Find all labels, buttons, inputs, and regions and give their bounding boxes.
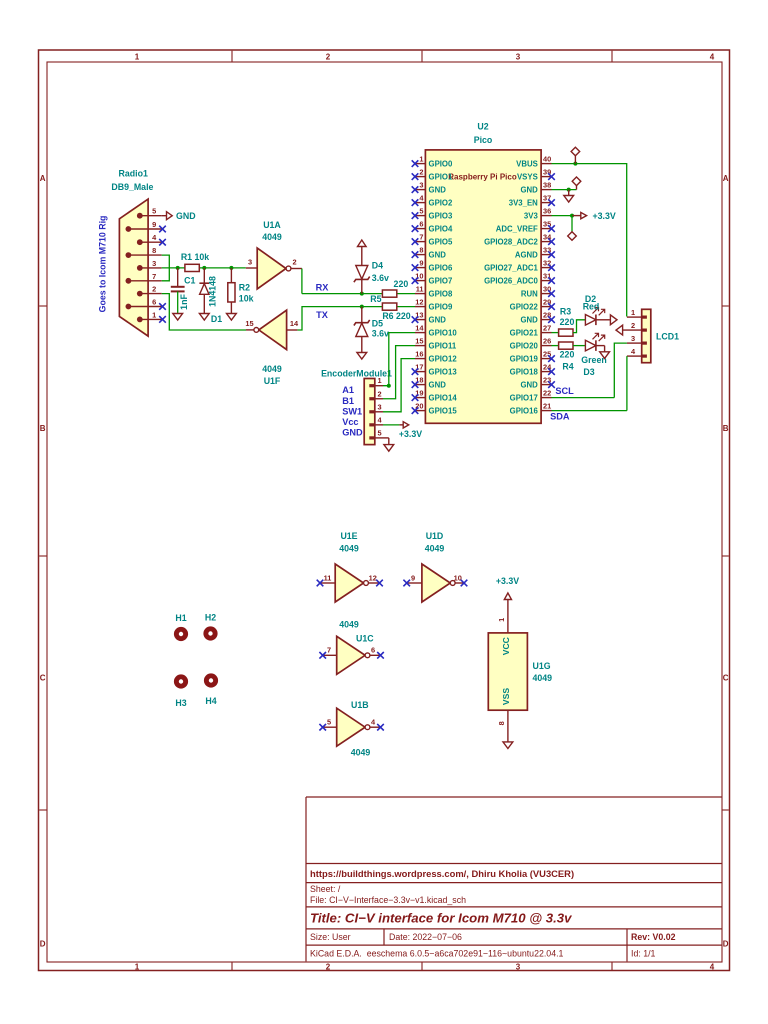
ground U2.38: [564, 190, 574, 203]
ground D2 (rotated right): [610, 315, 617, 325]
svg-text:AGND: AGND: [515, 250, 538, 259]
svg-text:GND: GND: [520, 380, 538, 389]
svg-text:GPIO12: GPIO12: [429, 354, 458, 363]
svg-text:3: 3: [419, 181, 423, 190]
svg-text:5: 5: [152, 207, 156, 216]
svg-text:Sheet: /: Sheet: /: [310, 884, 341, 894]
svg-text:TX: TX: [316, 310, 329, 320]
svg-text:A: A: [40, 174, 46, 183]
svg-text:4049: 4049: [339, 619, 359, 629]
svg-text:16: 16: [415, 350, 423, 359]
svg-text:U1A: U1A: [263, 220, 281, 230]
no-connect U1C.6: [377, 652, 384, 659]
svg-text:D4: D4: [372, 261, 383, 271]
svg-text:VSS: VSS: [501, 688, 511, 705]
svg-text:1: 1: [152, 310, 156, 319]
wire net DB9.3 to U1A.3 (CI-V line): [162, 267, 246, 269]
junction C1 top: [176, 266, 180, 270]
svg-text:GPIO10: GPIO10: [429, 328, 458, 337]
resistor R3 220: [552, 307, 575, 337]
mounting hole H2: [203, 612, 217, 640]
svg-text:SCL: SCL: [555, 386, 574, 396]
svg-text:GND: GND: [342, 428, 363, 438]
svg-text:12: 12: [369, 573, 377, 582]
ground R2: [227, 314, 237, 321]
svg-text:B: B: [723, 424, 729, 433]
svg-text:3: 3: [152, 259, 156, 268]
no-connect U2 pin 10: [412, 277, 419, 284]
svg-text:H1: H1: [175, 613, 186, 623]
inverter U1A 4049: [246, 220, 302, 289]
svg-text:+3.3V: +3.3V: [496, 576, 519, 586]
inverter U1D 4049: [407, 531, 464, 602]
wire Encoder.1 to U2.14: [383, 333, 415, 386]
svg-text:GPIO6: GPIO6: [429, 263, 453, 272]
svg-text:https://buildthings.wordpress.: https://buildthings.wordpress.com/, Dhir…: [310, 868, 574, 879]
wire LCD1.3 to SCL (U2.22): [552, 343, 627, 398]
svg-text:+3.3V: +3.3V: [399, 429, 422, 439]
svg-text:GPIO3: GPIO3: [429, 211, 453, 220]
no-connect U1D.9: [403, 580, 410, 587]
svg-text:GPIO0: GPIO0: [429, 159, 453, 168]
junction R2 top: [229, 266, 233, 270]
ic U2 Raspberry Pi Pico: [415, 122, 552, 424]
wire Encoder.3 to U2.16: [383, 359, 415, 412]
svg-text:EncoderModule1: EncoderModule1: [321, 368, 392, 378]
resistor R4 220: [552, 342, 575, 372]
connector EncoderModule1: [321, 368, 392, 444]
svg-text:SW1: SW1: [342, 406, 362, 416]
svg-text:5: 5: [419, 207, 423, 216]
svg-text:1: 1: [419, 155, 423, 164]
svg-text:R3: R3: [560, 307, 571, 317]
svg-text:Raspberry Pi Pico: Raspberry Pi Pico: [448, 172, 517, 181]
svg-text:C: C: [40, 673, 46, 682]
ground C1: [173, 314, 183, 321]
svg-text:VBUS: VBUS: [516, 159, 538, 168]
svg-text:11: 11: [416, 285, 424, 294]
svg-text:U1E: U1E: [340, 531, 357, 541]
svg-text:1nF: 1nF: [179, 294, 189, 310]
no-connect U2 pin 6: [412, 225, 419, 232]
svg-text:U1F: U1F: [264, 376, 281, 386]
svg-text:1: 1: [497, 618, 506, 622]
svg-text:R5: R5: [370, 294, 381, 304]
no-connect U2 pin 4: [412, 199, 419, 206]
svg-text:D: D: [723, 939, 729, 948]
svg-text:H2: H2: [205, 612, 216, 622]
svg-text:D1: D1: [211, 314, 222, 324]
no-connect U2 pin 37: [548, 199, 555, 206]
no-connect U1C.7: [319, 652, 326, 659]
svg-text:5: 5: [327, 718, 331, 727]
svg-text:GND: GND: [429, 315, 447, 324]
no-connect U2 pin 13: [412, 316, 419, 323]
svg-text:Rev: V0.02: Rev: V0.02: [631, 932, 676, 942]
svg-text:5: 5: [377, 428, 381, 437]
no-connect U2 pin 20: [412, 407, 419, 414]
svg-text:3: 3: [516, 962, 521, 971]
inverter U1E 4049: [320, 531, 379, 602]
svg-text:GND: GND: [520, 315, 538, 324]
svg-text:GND: GND: [429, 250, 447, 259]
svg-text:4049: 4049: [533, 673, 553, 683]
power flag GND (diamond): [572, 177, 581, 190]
svg-text:B: B: [40, 424, 46, 433]
resistor R6 220: [382, 303, 410, 321]
svg-text:GPIO4: GPIO4: [429, 224, 453, 233]
svg-text:GPIO17: GPIO17: [510, 393, 538, 402]
no-connect U2 pin 2: [412, 173, 419, 180]
svg-text:GPIO2: GPIO2: [429, 198, 453, 207]
svg-text:Goes to Icom M710 Rig: Goes to Icom M710 Rig: [98, 216, 108, 313]
svg-text:RUN: RUN: [521, 289, 538, 298]
svg-text:GPIO1: GPIO1: [429, 172, 453, 181]
svg-text:File: CI−V−Interface−3.3v−v1.k: File: CI−V−Interface−3.3v−v1.kicad_sch: [310, 895, 466, 905]
power unit U1G 4049 (VCC/VSS): [488, 600, 552, 742]
svg-text:1: 1: [135, 962, 140, 971]
svg-text:1: 1: [135, 52, 140, 61]
svg-text:2: 2: [292, 257, 296, 266]
power flag below 3V3 (diamond): [568, 216, 577, 241]
svg-text:SDA: SDA: [550, 411, 570, 421]
svg-text:GND: GND: [429, 185, 447, 194]
svg-text:+3.3V: +3.3V: [593, 211, 616, 221]
no-connect DB9 pin 4: [159, 239, 166, 246]
wire DB9.2 to U1F.15: [162, 294, 246, 330]
svg-text:220: 220: [560, 350, 575, 360]
svg-text:GPIO22: GPIO22: [510, 302, 539, 311]
svg-text:3: 3: [248, 257, 252, 266]
ground U1G.8: [503, 742, 513, 749]
wire LCD1.4 to SDA (U2.21): [552, 356, 627, 411]
no-connect U2 pin 1: [412, 160, 419, 167]
svg-text:D5: D5: [372, 318, 383, 328]
mounting hole H4: [204, 673, 218, 706]
svg-text:6: 6: [419, 220, 423, 229]
svg-text:RX: RX: [316, 282, 330, 292]
wire 3V3 net (U2.36): [552, 215, 573, 217]
svg-text:DB9_Male: DB9_Male: [111, 182, 153, 192]
svg-text:4049: 4049: [425, 544, 445, 554]
wire R4 to D3: [573, 345, 585, 347]
diode D1 1N4148: [199, 268, 222, 324]
svg-text:6: 6: [152, 298, 156, 307]
svg-text:220: 220: [394, 279, 409, 289]
svg-text:7: 7: [327, 646, 331, 655]
no-connect U2 pin 25: [548, 355, 555, 362]
wire GND net (U2.38): [552, 189, 577, 191]
svg-text:12: 12: [415, 298, 423, 307]
svg-text:H4: H4: [205, 696, 216, 706]
svg-text:10k: 10k: [239, 294, 254, 304]
connector LCD1: [623, 308, 679, 363]
svg-text:8: 8: [152, 246, 156, 255]
power flag above D4 (arrow up): [358, 240, 367, 247]
zener diode D4 3.6v: [354, 247, 389, 294]
svg-text:GPIO16: GPIO16: [510, 406, 539, 415]
svg-text:VCC: VCC: [501, 637, 511, 655]
svg-text:14: 14: [290, 319, 299, 328]
junction Encoder.1: [387, 384, 391, 388]
svg-text:36: 36: [543, 207, 551, 216]
svg-text:GPIO15: GPIO15: [429, 406, 458, 415]
svg-text:Red: Red: [583, 301, 600, 311]
wire DB9 pin8 to pin7 tie: [162, 255, 170, 281]
resistor R2 10k: [228, 268, 254, 314]
no-connect U1E.12: [376, 580, 383, 587]
wire R6 to U1F.14: [297, 307, 382, 330]
svg-text:GPIO26_ADC0: GPIO26_ADC0: [484, 276, 538, 285]
capacitor C1 1nF: [171, 268, 196, 314]
svg-text:4049: 4049: [262, 232, 282, 242]
no-connect U2 pin 32: [548, 264, 555, 271]
svg-text:4049: 4049: [351, 748, 371, 758]
wire R3 to D2: [573, 320, 585, 333]
connector Radio1 DB9_Male: [111, 169, 161, 337]
svg-text:3: 3: [377, 402, 381, 411]
svg-text:GPIO27_ADC1: GPIO27_ADC1: [484, 263, 538, 272]
led D3 Green: [581, 333, 606, 377]
power flag VBUS (diamond): [571, 147, 580, 163]
svg-text:Vcc: Vcc: [342, 417, 358, 427]
svg-text:U1G: U1G: [533, 661, 551, 671]
no-connect U2 pin 24: [548, 368, 555, 375]
svg-text:Radio1: Radio1: [119, 169, 148, 179]
no-connect U2 pin 31: [548, 277, 555, 284]
svg-text:11: 11: [324, 573, 332, 582]
svg-text:3.6v: 3.6v: [372, 329, 389, 339]
svg-text:38: 38: [543, 181, 551, 190]
no-connect U2 pin 3: [412, 186, 419, 193]
no-connect U2 pin 9: [412, 264, 419, 271]
no-connect U2 pin 39: [548, 173, 555, 180]
svg-text:1N4148: 1N4148: [208, 276, 218, 307]
svg-text:A1: A1: [342, 385, 354, 395]
wire Encoder.2 to U2.15: [383, 346, 415, 399]
power +3.3V (U1G.1): [496, 576, 519, 600]
svg-text:27: 27: [543, 324, 551, 333]
svg-text:GPIO7: GPIO7: [429, 276, 453, 285]
inverter U1F 4049 (mirrored): [245, 310, 299, 386]
svg-text:14: 14: [415, 324, 424, 333]
wire VBUS net (U2.40 to LCD1.1): [552, 164, 627, 317]
svg-text:GPIO13: GPIO13: [429, 367, 458, 376]
svg-text:GPIO5: GPIO5: [429, 237, 453, 246]
svg-text:ADC_VREF: ADC_VREF: [496, 224, 538, 233]
svg-text:26: 26: [543, 337, 551, 346]
svg-text:U1C: U1C: [356, 633, 374, 643]
svg-text:GPIO20: GPIO20: [510, 341, 539, 350]
no-connect U2 pin 33: [548, 251, 555, 258]
svg-text:15: 15: [245, 319, 253, 328]
svg-text:LCD1: LCD1: [656, 331, 679, 341]
ground Encoder.5: [383, 438, 394, 451]
svg-text:2: 2: [326, 962, 331, 971]
no-connect U1B.4: [377, 724, 384, 731]
no-connect U1E.11: [317, 580, 324, 587]
power GND (DB9 pin 5): [162, 211, 196, 221]
ground D3: [600, 352, 610, 359]
no-connect U2 pin 5: [412, 212, 419, 219]
svg-text:R6 220: R6 220: [382, 311, 410, 321]
no-connect U2 pin 29: [548, 303, 555, 310]
zener diode D5 3.6v: [354, 307, 389, 353]
ground D1: [199, 314, 209, 321]
svg-text:R2: R2: [239, 282, 250, 292]
svg-text:R4: R4: [562, 362, 573, 372]
junction TX / D5: [360, 305, 364, 309]
svg-text:C1: C1: [184, 276, 195, 286]
svg-text:10: 10: [454, 573, 462, 582]
wire U1A.2 to R5 (RX net): [302, 269, 383, 294]
svg-text:2: 2: [419, 168, 423, 177]
inverter U1C 4049: [323, 619, 381, 674]
svg-text:R1 10k: R1 10k: [181, 252, 209, 262]
svg-text:4: 4: [710, 962, 715, 971]
svg-text:4049: 4049: [339, 544, 359, 554]
ground D5: [357, 353, 367, 360]
svg-text:C: C: [723, 673, 729, 682]
svg-text:15: 15: [415, 337, 423, 346]
svg-text:GPIO11: GPIO11: [429, 341, 457, 350]
no-connect U2 pin 30: [548, 290, 555, 297]
ground LCD1.2 (rotated left): [616, 325, 623, 335]
inverter U1B 4049: [323, 700, 381, 758]
svg-text:U1D: U1D: [426, 531, 444, 541]
svg-text:A: A: [723, 174, 729, 183]
no-connect U1D.10: [461, 580, 468, 587]
svg-text:GND: GND: [176, 211, 196, 221]
resistor R5 220: [370, 279, 408, 304]
svg-text:U1B: U1B: [351, 700, 369, 710]
svg-text:GPIO28_ADC2: GPIO28_ADC2: [484, 237, 538, 246]
mounting hole H1: [174, 613, 188, 641]
svg-text:8: 8: [497, 721, 506, 725]
wire U2.12 to R6 (TX net): [397, 306, 415, 308]
mounting hole H3: [174, 674, 188, 708]
svg-text:4049: 4049: [262, 364, 282, 374]
svg-text:1: 1: [631, 308, 635, 317]
no-connect U2 pin 17: [412, 368, 419, 375]
svg-text:21: 21: [543, 402, 551, 411]
svg-text:GPIO8: GPIO8: [429, 289, 453, 298]
junction 3V3: [570, 214, 574, 218]
led D2 Red: [583, 294, 610, 325]
junction VBUS: [573, 162, 577, 166]
no-connect U2 pin 34: [548, 238, 555, 245]
no-connect U2 pin 8: [412, 251, 419, 258]
svg-text:2: 2: [377, 389, 381, 398]
no-connect U2 pin 7: [412, 238, 419, 245]
svg-text:3: 3: [631, 334, 635, 343]
svg-text:2: 2: [631, 321, 635, 330]
no-connect DB9 pin 1: [159, 316, 166, 323]
svg-text:U2: U2: [477, 122, 488, 132]
power +3.3V (Encoder.4): [383, 422, 422, 439]
svg-text:2: 2: [152, 285, 156, 294]
no-connect U2 pin 23: [548, 381, 555, 388]
svg-text:3: 3: [516, 52, 521, 61]
svg-text:8: 8: [419, 246, 423, 255]
svg-text:B1: B1: [342, 396, 354, 406]
no-connect U2 pin 28: [548, 316, 555, 323]
svg-text:220: 220: [560, 317, 575, 327]
svg-text:GND: GND: [520, 185, 538, 194]
wire R5 to U2.11: [397, 293, 415, 295]
svg-text:22: 22: [543, 389, 551, 398]
svg-text:7: 7: [152, 272, 156, 281]
svg-text:D3: D3: [583, 367, 594, 377]
svg-text:3.6v: 3.6v: [372, 273, 389, 283]
svg-text:Id: 1/1: Id: 1/1: [631, 949, 656, 959]
svg-text:9: 9: [152, 220, 156, 229]
junction RX / D4: [360, 292, 364, 296]
svg-text:3V3_EN: 3V3_EN: [509, 198, 538, 207]
svg-text:9: 9: [411, 573, 415, 582]
svg-text:GPIO14: GPIO14: [429, 393, 458, 402]
svg-text:6: 6: [371, 646, 375, 655]
svg-text:40: 40: [543, 155, 551, 164]
svg-text:Title: CI−V interface for Icom: Title: CI−V interface for Icom M710 @ 3.…: [310, 911, 572, 926]
svg-text:GPIO18: GPIO18: [510, 367, 539, 376]
no-connect U2 pin 18: [412, 381, 419, 388]
svg-text:D: D: [40, 939, 46, 948]
power +3.3V (U2.36): [572, 211, 616, 221]
no-connect U1B.5: [319, 724, 326, 731]
svg-text:GPIO9: GPIO9: [429, 302, 453, 311]
svg-text:GPIO19: GPIO19: [510, 354, 539, 363]
junction D1 top: [202, 266, 206, 270]
svg-text:VSYS: VSYS: [517, 172, 538, 181]
svg-text:GND: GND: [429, 380, 447, 389]
svg-text:4: 4: [710, 52, 715, 61]
svg-text:3V3: 3V3: [524, 211, 539, 220]
no-connect DB9 pin 6: [159, 303, 166, 310]
no-connect U2 pin 35: [548, 225, 555, 232]
svg-text:H3: H3: [175, 698, 186, 708]
svg-text:Date: 2022−07−06: Date: 2022−07−06: [389, 932, 462, 942]
svg-text:2: 2: [326, 52, 331, 61]
resistor R1 10k: [181, 252, 209, 271]
svg-text:KiCad E.D.A. eeschema 6.0.5−a: KiCad E.D.A. eeschema 6.0.5−a6ca702e91−1…: [310, 949, 564, 959]
no-connect DB9 pin 9: [159, 226, 166, 233]
svg-text:Size: User: Size: User: [310, 932, 351, 942]
junction GND net: [567, 188, 571, 192]
no-connect U2 pin 19: [412, 394, 419, 401]
svg-text:GPIO21: GPIO21: [510, 328, 539, 337]
svg-text:9: 9: [419, 259, 423, 268]
svg-text:7: 7: [419, 233, 423, 242]
svg-text:Pico: Pico: [474, 135, 493, 145]
